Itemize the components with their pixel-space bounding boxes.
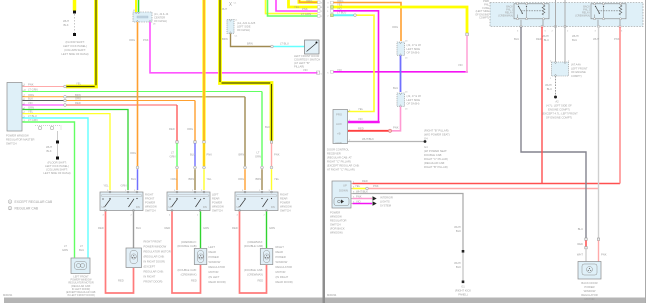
wire RED loop B	[172, 212, 201, 294]
svg-text:WHT/BLK: WHT/BLK	[362, 137, 374, 141]
svg-text:IN RIGHT DOOR): IN RIGHT DOOR)	[144, 260, 166, 264]
legend note 2	[8, 206, 39, 210]
relay block pin digits	[517, 31, 623, 33]
right rear power window switch box C	[235, 191, 278, 212]
svg-text:VIO: VIO	[458, 63, 463, 67]
svg-text:ORG: ORG	[238, 177, 244, 181]
svg-text:LT BLU: LT BLU	[337, 11, 346, 15]
svg-text:VIO: VIO	[337, 68, 343, 72]
svg-text:YEL: YEL	[103, 184, 109, 188]
switch B caption	[212, 193, 224, 213]
wire BRN B2 to box	[194, 169, 196, 190]
svg-text:M30334: M30334	[327, 293, 337, 297]
svg-text:REGULATOR MASTER: REGULATOR MASTER	[6, 138, 34, 142]
left front power window regulator motor	[71, 258, 90, 274]
svg-text:SYSTEM: SYSTEM	[380, 204, 392, 208]
wire WHT/BLK ground chain lower	[462, 253, 464, 281]
connector J lower pin labels	[405, 92, 408, 111]
wire ORG r3 stub	[23, 96, 64, 98]
svg-text:GRN: GRN	[62, 248, 68, 252]
wire PNK from relay2 down	[619, 27, 621, 184]
svg-text:BLU: BLU	[190, 153, 195, 157]
label WHT/BLK vertical	[454, 225, 461, 233]
svg-text:CENTER: CENTER	[154, 16, 165, 20]
svg-text:(DOUBLE CAB): (DOUBLE CAB)	[177, 244, 196, 248]
splice B2	[194, 166, 197, 169]
labels WHT/BLU pair	[542, 34, 579, 42]
splice pin2	[366, 187, 369, 190]
svg-text:RED: RED	[577, 242, 583, 246]
wire RED into DCR pin3	[348, 130, 388, 132]
connector square 2	[585, 247, 587, 249]
wire YEL into J connector	[135, 0, 137, 12]
connector A1 pin labels	[234, 3, 239, 38]
svg-text:VIO: VIO	[303, 68, 308, 72]
wire C3 YEL/BLK thick elbow	[220, 0, 272, 141]
relay2 pin stubs	[598, 20, 620, 27]
svg-text:SWITCH: SWITCH	[280, 209, 291, 213]
svg-text:(CREWMAX): (CREWMAX)	[181, 273, 197, 277]
svg-text:IN RIGHT: IN RIGHT	[144, 275, 156, 279]
connector J row1 upper	[397, 42, 405, 56]
svg-text:OF ENGINE: OF ENGINE	[571, 70, 586, 74]
motor C caption	[276, 245, 293, 284]
svg-text:RIGHT: RIGHT	[280, 193, 289, 197]
label WHT/BLU below	[545, 83, 552, 91]
svg-text:RIGHT FRONT: RIGHT FRONT	[144, 240, 163, 244]
svg-text:RECEIVER: RECEIVER	[327, 152, 341, 156]
wire B2 ORG drop	[194, 101, 196, 141]
svg-text:FRONT DOOR): FRONT DOOR)	[144, 280, 163, 284]
svg-text:REAR: REAR	[276, 250, 284, 254]
svg-text:WHT/: WHT/	[542, 34, 549, 38]
svg-text:POWER: POWER	[212, 201, 222, 205]
label WHT/BLK below switch	[46, 145, 52, 153]
connector J lower pins	[399, 93, 401, 107]
svg-text:LEFT SIDE: LEFT SIDE	[407, 98, 421, 102]
svg-text:GRN: GRN	[255, 155, 261, 159]
svg-text:(J2, J7 & J8: (J2, J7 & J8	[407, 43, 422, 47]
svg-text:(REGULAR CAB: AT: (REGULAR CAB: AT	[327, 156, 352, 160]
svg-text:DN: DN	[203, 205, 207, 209]
wire LT BLU r8	[23, 118, 89, 258]
svg-text:(W/ POWER SEAT:: (W/ POWER SEAT:	[424, 149, 447, 153]
svg-text:BLK: BLK	[456, 265, 461, 269]
connector A4A pin labels	[550, 61, 570, 81]
svg-text:BLU: BLU	[136, 226, 141, 230]
svg-text:SWITCH: SWITCH	[330, 223, 341, 227]
wire B3 ORG/YEL thick drop	[202, 0, 205, 141]
svg-text:RED: RED	[258, 279, 264, 283]
svg-text:UP: UP	[237, 205, 241, 209]
wire BLU into switch A	[137, 169, 139, 190]
J connector block C of dash	[133, 10, 156, 26]
back door power window regulator motor	[578, 262, 601, 280]
wire PNK r1 to switch	[23, 86, 64, 88]
svg-text:YEL: YEL	[274, 177, 280, 181]
motor B variant labels	[177, 240, 196, 277]
svg-text:LEFT: LEFT	[212, 193, 219, 197]
svg-text:WINDOW): WINDOW)	[330, 231, 343, 235]
svg-text:WHT/: WHT/	[454, 261, 461, 265]
relay1 pin stubs	[521, 20, 543, 27]
svg-text:DOOR CONTROL: DOOR CONTROL	[327, 148, 349, 152]
svg-text:RED: RED	[165, 226, 171, 230]
svg-text:(REGULAR CAB:: (REGULAR CAB:	[144, 255, 165, 259]
svg-text:YEL: YEL	[207, 177, 213, 181]
svg-text:POWER WINDOW: POWER WINDOW	[144, 245, 167, 249]
wire row labels at switch	[28, 83, 81, 123]
svg-text:ORG: ORG	[392, 25, 398, 29]
connector B2	[194, 141, 196, 143]
connector J upper pin labels	[405, 41, 408, 60]
svg-text:FRONT: FRONT	[145, 197, 155, 201]
svg-text:WINDOW: WINDOW	[209, 260, 221, 264]
connector J lower caption	[407, 94, 422, 106]
svg-text:WINDOW: WINDOW	[212, 205, 224, 209]
svg-text:(RIGHT "B" PILLAR): (RIGHT "B" PILLAR)	[424, 129, 449, 133]
svg-text:REGULAR CAB:: REGULAR CAB:	[144, 270, 164, 274]
wire GRN drop B to motor	[200, 212, 202, 249]
svg-text:LEFT SIDE: LEFT SIDE	[237, 25, 251, 29]
DCR caption	[327, 148, 360, 172]
J connector caption	[154, 12, 169, 23]
label WHT/BLK lower	[454, 261, 461, 269]
svg-text:REGULATOR: REGULATOR	[581, 293, 598, 297]
connector C3	[270, 141, 272, 143]
motor B caption	[209, 245, 226, 284]
right front power window switch box A	[100, 191, 143, 212]
svg-text:LEFT SIDE OF DASH): LEFT SIDE OF DASH)	[43, 171, 70, 175]
svg-text:(FOR BACK: (FOR BACK	[330, 227, 345, 231]
svg-text:PILLAR): PILLAR)	[294, 65, 304, 69]
switch B pin digits	[169, 190, 203, 217]
svg-text:GRN: GRN	[203, 226, 209, 230]
svg-text:OF ENGINE COMPT): OF ENGINE COMPT)	[546, 116, 572, 120]
connector A4A caption	[571, 63, 588, 78]
svg-text:(A1, A21 & A25: (A1, A21 & A25	[237, 21, 256, 25]
fuse caption left of relay block	[475, 0, 489, 20]
connector A1 caption	[237, 21, 256, 32]
svg-text:(J1, J2 & J4: (J1, J2 & J4	[154, 12, 169, 16]
wire LT GRN r9	[23, 122, 75, 258]
relay block outline	[490, 3, 643, 27]
top right bundle wire YEL/ORG row1	[299, 0, 318, 2]
svg-text:SWITCH: SWITCH	[6, 142, 17, 146]
svg-text:(AT A4A: (AT A4A	[571, 63, 581, 67]
svg-text:LEFT SIDE: LEFT SIDE	[407, 47, 421, 51]
svg-text:(EXCEPT 4.7L: LEFT FRONT: (EXCEPT 4.7L: LEFT FRONT	[542, 112, 578, 116]
svg-text:WHT: WHT	[46, 145, 52, 149]
relay 2 caption	[575, 6, 590, 18]
svg-text:WINDOW: WINDOW	[584, 289, 596, 293]
connector square ground chain	[462, 250, 465, 253]
wire PNK C3	[271, 143, 273, 166]
svg-text:BLU: BLU	[514, 37, 519, 41]
wire LT BLU to courtesy switch	[274, 46, 305, 48]
svg-text:(4.7L: LEFT SIDE OF: (4.7L: LEFT SIDE OF	[546, 104, 572, 108]
svg-text:COMPT): COMPT)	[479, 17, 489, 20]
svg-text:WHT: WHT	[221, 7, 227, 11]
right front power window regulator motor	[126, 248, 142, 268]
svg-text:EXCEPT REGULAR CAB: EXCEPT REGULAR CAB	[15, 200, 53, 204]
svg-text:GRN: GRN	[170, 155, 176, 159]
connector A1 left side of dash	[227, 20, 234, 34]
svg-text:G1: G1	[461, 285, 465, 289]
svg-text:LEFT KICK PANEL): LEFT KICK PANEL)	[45, 164, 69, 168]
svg-text:SWITCH: SWITCH	[145, 209, 156, 213]
wire PNK from J connector	[150, 22, 318, 73]
svg-text:REAR: REAR	[280, 197, 288, 201]
terminal row1 right page	[331, 1, 334, 4]
svg-text:WINDOW: WINDOW	[330, 215, 342, 219]
svg-text:PRG: PRG	[336, 113, 342, 117]
svg-text:PNK: PNK	[601, 253, 607, 257]
svg-text:(W/O POWER SEAT): (W/O POWER SEAT)	[424, 133, 450, 137]
svg-text:ORG: ORG	[306, 0, 312, 3]
wire BRN from A1 to courtesy switch	[231, 34, 271, 47]
splice B1	[176, 166, 179, 169]
svg-text:(IN LEFT: (IN LEFT	[209, 275, 220, 279]
right page footer bar	[325, 297, 645, 303]
svg-text:ORG: ORG	[130, 151, 136, 155]
wire VIO row3	[334, 11, 379, 121]
node label shift variants lower	[43, 161, 70, 176]
ground square	[462, 281, 465, 284]
svg-text:MOTOR: MOTOR	[276, 270, 286, 274]
svg-text:(REGULAR CAB:: (REGULAR CAB:	[424, 161, 445, 165]
wire WHT/BLK stub below master switch	[56, 131, 59, 160]
left front door courtesy switch	[305, 40, 320, 54]
labels above switch A	[103, 184, 126, 188]
svg-text:M30331: M30331	[3, 293, 13, 297]
svg-text:LT GRN: LT GRN	[28, 118, 38, 122]
connector squares on BLU/RED	[585, 238, 587, 240]
motor A caption	[144, 240, 171, 284]
wire BLU drop A to motor	[133, 212, 135, 249]
svg-text:LT BLU: LT BLU	[28, 114, 37, 118]
svg-text:WHT/: WHT/	[545, 83, 552, 87]
wire RED r5	[67, 104, 177, 106]
svg-text:REGULATOR MOTOR: REGULATOR MOTOR	[144, 250, 171, 254]
terminal digits right page edge	[327, 3, 329, 75]
svg-text:WINDOW: WINDOW	[276, 260, 288, 264]
svg-text:RIGHT "C" PILLAR): RIGHT "C" PILLAR)	[424, 157, 448, 161]
splice red/pnk	[388, 129, 391, 132]
splice r3	[64, 95, 67, 98]
svg-text:REGULAR CAB: REGULAR CAB	[15, 207, 39, 211]
back window regulator switch box	[332, 181, 353, 208]
svg-text:BLU: BLU	[79, 248, 84, 252]
svg-text:WHT: WHT	[593, 37, 599, 41]
svg-text:REAR: REAR	[209, 250, 217, 254]
wire BRN r3	[67, 96, 245, 98]
svg-text:PNK: PNK	[614, 37, 620, 41]
svg-text:VIO: VIO	[356, 199, 361, 203]
svg-text:REAR: REAR	[212, 197, 220, 201]
svg-text:SWITCH: SWITCH	[212, 209, 223, 213]
wire PNK switch pin4 to arrow	[353, 198, 373, 200]
left motor caption	[66, 276, 96, 298]
wire WHT from relay2 down	[598, 27, 600, 239]
svg-text:BLU: BLU	[572, 38, 577, 42]
BWS caption	[330, 211, 347, 235]
svg-text:(COLUMN SHIFT:: (COLUMN SHIFT:	[64, 48, 86, 52]
splice C1	[244, 166, 247, 169]
svg-text:RED: RED	[118, 279, 124, 283]
svg-text:(EXCEPT REGULAR CAB:: (EXCEPT REGULAR CAB:	[327, 164, 360, 168]
terminal digits left page edge	[321, 2, 323, 75]
svg-text:PNK: PNK	[207, 153, 213, 157]
svg-text:RED: RED	[98, 226, 104, 230]
left page footer bar	[4, 297, 323, 303]
svg-text:YEL: YEL	[76, 82, 82, 86]
wire RED loop A	[106, 212, 134, 294]
connector square WHT/PNK	[597, 238, 599, 240]
wire stub WHT/BLK top-left: yellow feed	[73, 0, 76, 36]
svg-text:LEFT: LEFT	[209, 245, 216, 249]
wire YEL C3 to box	[271, 169, 273, 190]
svg-text:PANEL): PANEL)	[458, 293, 468, 297]
svg-text:REAR DOOR): REAR DOOR)	[276, 280, 293, 284]
svg-text:MOTOR: MOTOR	[209, 270, 219, 274]
connector square YEL/PNK	[466, 33, 469, 36]
svg-text:IN LEFT FRONT DOOR): IN LEFT FRONT DOOR)	[67, 294, 95, 297]
BWS pin digits	[353, 182, 355, 204]
svg-text:(AT LEFT "B": (AT LEFT "B"	[294, 61, 310, 65]
left rear power window switch box B	[167, 191, 210, 212]
svg-text:LEFT FRONT DOOR: LEFT FRONT DOOR	[294, 54, 319, 58]
master switch caption	[6, 134, 34, 146]
svg-text:PNK: PNK	[28, 83, 34, 87]
svg-text:+B: +B	[337, 132, 341, 136]
wire WHT/BLK switch pin3	[353, 194, 464, 251]
arrow mirror system	[373, 201, 377, 205]
wire RED segment	[585, 240, 587, 246]
svg-text:WHT: WHT	[577, 253, 583, 257]
connector J row2 lower	[397, 93, 405, 107]
svg-text:BLK: BLK	[63, 23, 68, 27]
svg-text:LIGHTS: LIGHTS	[380, 200, 390, 204]
svg-text:LT: LT	[80, 244, 83, 248]
svg-text:AT RIGHT "C" PILLAR): AT RIGHT "C" PILLAR)	[327, 168, 355, 172]
wire ORG row1 to J connector chain	[334, 3, 402, 42]
wire BLU between connectors	[400, 56, 402, 93]
svg-text:POWER WINDOW: POWER WINDOW	[6, 134, 29, 138]
wire PNK into motor right pin	[598, 240, 600, 261]
switch C pin digits	[237, 190, 271, 217]
svg-text:BLU: BLU	[131, 177, 136, 181]
wire WHT/BLU below connector	[555, 76, 557, 96]
svg-text:BACK DOOR: BACK DOOR	[581, 281, 597, 285]
svg-text:COMPT): COMPT)	[571, 74, 582, 78]
left rear power window regulator motor	[194, 249, 207, 265]
back pnl 2 relay box	[591, 3, 626, 20]
svg-text:BRN: BRN	[222, 37, 228, 41]
splice connector r1	[64, 85, 67, 88]
svg-text:(J2, J7 & J8: (J2, J7 & J8	[407, 94, 422, 98]
wire ORG C1 to box	[244, 169, 246, 190]
svg-text:(FLOOR SHIFT:: (FLOOR SHIFT:	[65, 40, 84, 44]
svg-text:LT GRN: LT GRN	[28, 88, 38, 92]
svg-text:YEL: YEL	[355, 184, 361, 188]
svg-text:UP: UP	[343, 184, 347, 188]
connector B1	[176, 141, 178, 143]
svg-text:WINDOW: WINDOW	[280, 205, 292, 209]
svg-text:PNK: PNK	[302, 7, 308, 11]
wire YEL from splice to DCR pin1	[348, 15, 374, 111]
svg-text:YEL: YEL	[28, 110, 34, 114]
svg-text:(IN RIGHT: (IN RIGHT	[276, 275, 289, 279]
svg-text:RED: RED	[536, 37, 542, 41]
terminal VIO right edge	[317, 71, 320, 74]
switch C caption	[280, 193, 292, 213]
svg-text:BLK: BLK	[28, 97, 33, 101]
wire C2 LT GRN drop	[261, 92, 263, 167]
svg-text:RIGHT "B" PILLAR): RIGHT "B" PILLAR)	[424, 165, 448, 169]
master switch pin ticks	[23, 86, 25, 122]
relay 1 caption	[498, 6, 513, 18]
splice r4	[64, 99, 67, 102]
connector A4A engine compt	[552, 62, 569, 76]
svg-text:REAR DOOR): REAR DOOR)	[209, 280, 226, 284]
svg-text:ORG: ORG	[129, 38, 135, 42]
svg-text:WHT/: WHT/	[454, 225, 461, 229]
svg-text:PNK: PNK	[373, 184, 379, 188]
svg-text:PNK: PNK	[274, 153, 280, 157]
svg-text:WHT/BLK: WHT/BLK	[356, 189, 368, 193]
wire VIO r5 stub	[23, 104, 64, 106]
svg-text:RED: RED	[358, 127, 364, 131]
splice row4	[354, 14, 357, 17]
svg-text:(CREWMAX): (CREWMAX)	[575, 15, 590, 18]
wire BRN C2 to box	[261, 169, 263, 190]
back pnl 1 relay box	[514, 3, 549, 20]
svg-text:OF DASH): OF DASH)	[237, 28, 250, 32]
pin numbers master switch	[24, 84, 27, 122]
connector A4A pins	[554, 62, 566, 76]
splice courtesy	[271, 45, 274, 48]
svg-text:BLU: BLU	[547, 87, 552, 91]
svg-text:BLK: BLK	[456, 229, 461, 233]
svg-text:VIO: VIO	[28, 101, 33, 105]
svg-text:REGULATOR: REGULATOR	[330, 219, 347, 223]
svg-text:DN: DN	[271, 205, 275, 209]
motor C variant labels	[244, 240, 263, 277]
svg-text:(CREWMAX): (CREWMAX)	[247, 273, 263, 277]
svg-text:LEFT KICK PANEL): LEFT KICK PANEL)	[63, 44, 87, 48]
svg-text:OF DASH): OF DASH)	[154, 19, 167, 23]
legend note 1	[8, 200, 53, 204]
wire WHT into motor left pin	[585, 249, 587, 262]
connector B3	[203, 141, 205, 143]
wire ORG r4	[67, 100, 195, 102]
svg-text:(RIGHT KICK: (RIGHT KICK	[455, 289, 471, 293]
page divider	[323, 0, 325, 303]
wire VIO switch pin5 to arrow	[353, 203, 373, 205]
back door motor caption	[581, 281, 598, 301]
wire B1 RED drop	[176, 105, 178, 141]
svg-text:LT GRN: LT GRN	[301, 12, 311, 16]
wire YEL B3 to box	[203, 169, 205, 190]
wire ORG B3 mid	[203, 143, 206, 166]
terminal row2 right page	[331, 6, 334, 9]
svg-text:COURTESY SWITCH: COURTESY SWITCH	[294, 58, 320, 62]
wire LT GRN r2 to rear window circuit	[23, 91, 263, 93]
svg-text:DOWN: DOWN	[339, 189, 348, 193]
svg-text:ORG: ORG	[28, 93, 34, 97]
svg-text:POWER: POWER	[584, 285, 594, 289]
